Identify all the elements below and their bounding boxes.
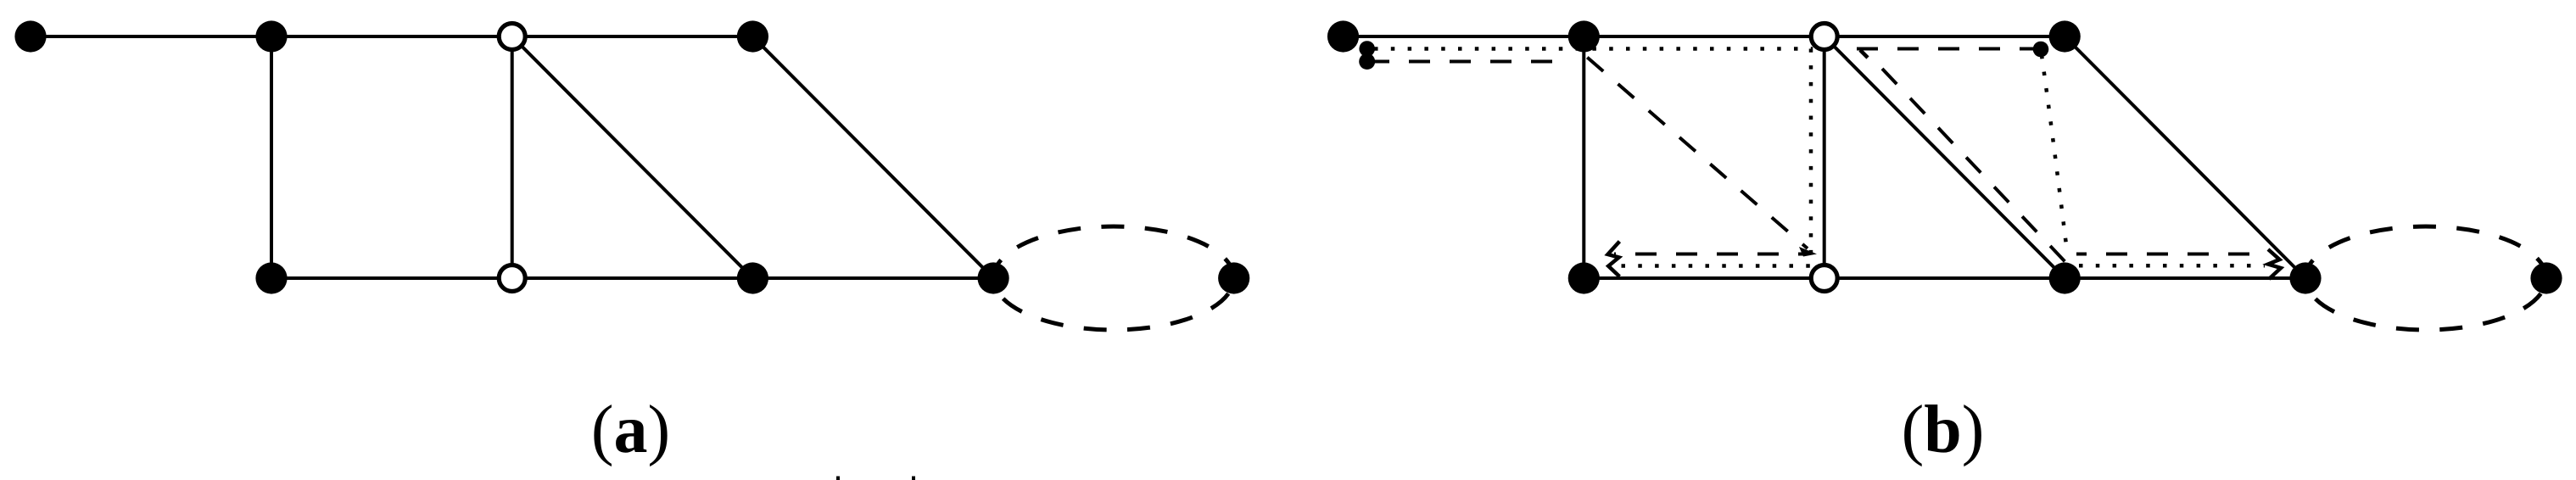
wire a: A3-A4 top (512, 35, 753, 38)
node a-A3 (open) (499, 24, 525, 50)
dashed trail2 top run A3 to dot (1857, 47, 2041, 51)
dotted trail1 polyline (1374, 49, 1811, 266)
node a-B3 (737, 262, 768, 293)
node a-B4 (978, 262, 1009, 293)
wire b: T4-U4 diagonal (2065, 36, 2305, 278)
node b-T3 (open) (1811, 24, 1837, 50)
node a-A2 (255, 20, 287, 52)
start dot of dotted trail1 (1359, 41, 1375, 57)
wire a: A2-B1 vertical (270, 36, 273, 278)
svg-text:(b): (b) (1902, 393, 1985, 467)
wire b: T3-U3 diagonal (1824, 36, 2065, 278)
start dot of dashed trail1 (1359, 53, 1375, 70)
wire b: T2-U1 vertical (1582, 36, 1585, 278)
dashed trail1 bottom run B2 to B1 (1614, 253, 1805, 256)
node a-A4 (737, 20, 768, 52)
node b-U1 (1568, 262, 1600, 293)
wire a: A2-A3 top (271, 35, 512, 38)
end dot of trail2 near A4 (2033, 42, 2049, 58)
svg-text:(a): (a) (591, 393, 670, 467)
node b-U2 (open) (1811, 265, 1837, 292)
node b-T4 (2049, 20, 2081, 52)
wire a: A3-B3 diagonal (512, 36, 753, 278)
node b-U4 (2289, 262, 2321, 293)
wire b: T3-U2 vertical (1823, 36, 1826, 278)
node b-U3 (2049, 262, 2081, 293)
dotted trail2 curve near A4 (2042, 55, 2067, 252)
node b-T1 (1327, 20, 1359, 52)
dashed ellipse a: B4-B5 double edge (993, 226, 1234, 330)
wire a: A4-B4 diagonal (752, 36, 993, 278)
node b-T2 (1568, 20, 1600, 52)
wire a: A3-B2 vertical (511, 36, 514, 278)
wire b: T2-T3 top (1584, 35, 1824, 38)
crop mark 1 (836, 477, 840, 480)
node a-B2 (open) (499, 265, 525, 292)
node a-B5 (1218, 262, 1249, 293)
dashed trail1 diagonal A2 to B2 (1583, 53, 1808, 248)
crop mark 2 (912, 477, 915, 480)
dashed trail1 arrowhead at B2 (1799, 247, 1817, 257)
wire a: B2-B3 bottom (512, 276, 753, 280)
wire a: B3-B4 bottom (752, 276, 993, 280)
wire b: U1-U2 bottom (1584, 276, 1824, 280)
dashed ellipse b: U4-U5 double edge (2305, 226, 2546, 330)
wire b: U3-U4 bottom (2065, 276, 2305, 280)
node b-U5 (2530, 262, 2562, 293)
node a-A1 (14, 20, 46, 52)
wire b: T3-T4 top (1824, 35, 2065, 38)
wire b: T1-T2 top (1344, 35, 1584, 38)
node a-B1 (255, 262, 287, 293)
dotted trail2 bottom run B3 to B4 (2079, 264, 2265, 268)
chevron arrows at B4 (pointing right) (2268, 249, 2281, 279)
dashed trail2 bottom run B3 to B4 (2076, 253, 2268, 256)
dashed trail2 arrow barb tick at A3 (1860, 50, 1868, 58)
chevron arrows at B1 (pointing left) (1608, 242, 1620, 277)
wire a: B1-B2 bottom (271, 276, 512, 280)
dashed trail2 diagonal A3 to B3 (1882, 69, 2066, 263)
dashed trail1 top run from start dot (1368, 60, 1559, 64)
wire b: U2-U3 bottom (1824, 276, 2065, 280)
dotted trail 1: start dot, top run, down, bottom run to B1 (1368, 49, 2281, 280)
wire a: A1-A2 top (31, 35, 271, 38)
